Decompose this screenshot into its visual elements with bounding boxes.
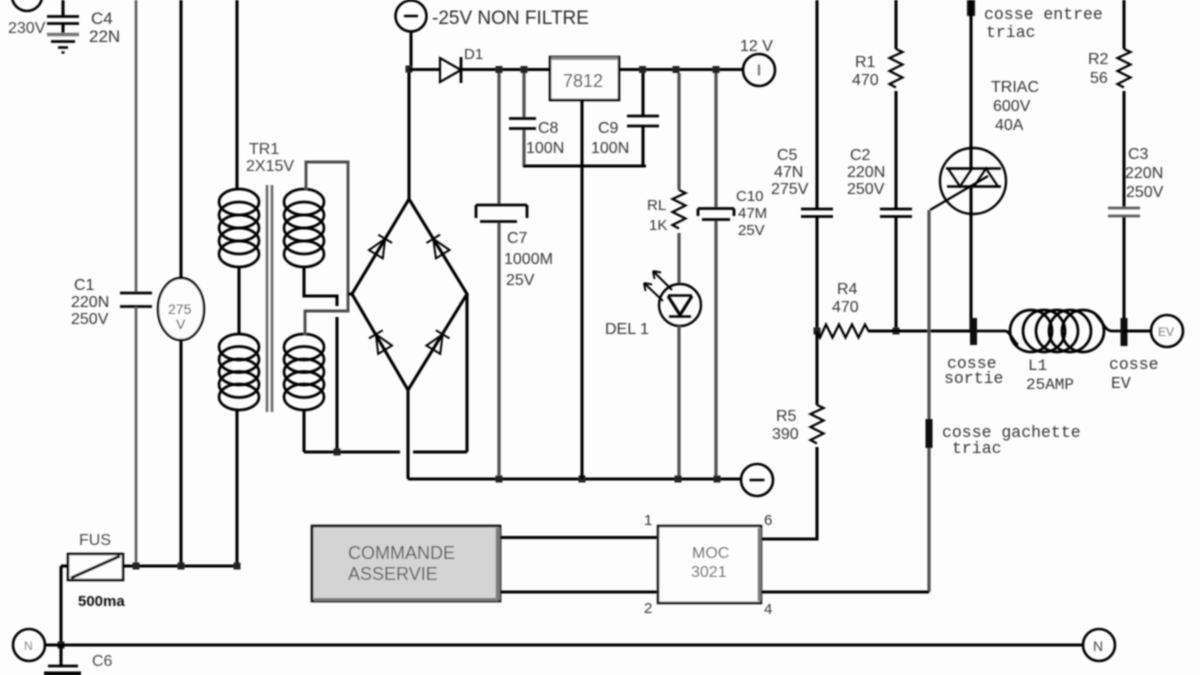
svg-text:220N: 220N: [71, 294, 109, 311]
svg-text:220N: 220N: [847, 164, 885, 181]
wire MOC pin 2 link: [500, 590, 658, 593]
svg-text:-25V NON FILTRE: -25V NON FILTRE: [432, 8, 589, 29]
svg-text:TR1: TR1: [249, 141, 279, 158]
capacitor C5 plates: [801, 209, 833, 217]
wire primary feed column: [235, 0, 238, 190]
svg-text:EV: EV: [1158, 325, 1174, 339]
terminal EV: [1151, 315, 1183, 347]
svg-text:D1: D1: [464, 46, 483, 63]
svg-text:230V: 230V: [8, 20, 46, 37]
wire ground rail: [408, 477, 741, 480]
terminal -25V NON FILTRE: [396, 1, 427, 32]
terminal N (bottom right): [1083, 629, 1115, 661]
node junction C10: [713, 66, 720, 73]
box COMMANDE ASSERVIE: [312, 526, 500, 601]
svg-text:470: 470: [832, 299, 859, 316]
svg-text:250V: 250V: [847, 181, 885, 198]
wire 12V output rail: [619, 68, 743, 71]
transformer core: [267, 185, 272, 412]
svg-text:220N: 220N: [1125, 165, 1163, 182]
resistor R1 470: [890, 49, 903, 88]
wire R4 to triac output node: [868, 329, 970, 332]
wire secondary top end wrap to bridge AC1: [305, 162, 348, 335]
resistor RL 1K: [673, 190, 686, 229]
svg-text:100N: 100N: [526, 140, 564, 157]
svg-text:2X15V: 2X15V: [246, 158, 294, 175]
resistor R4 470 (horizontal): [817, 325, 869, 338]
svg-text:sortie: sortie: [944, 369, 1003, 388]
node junction RL: [673, 66, 680, 73]
svg-text:triac: triac: [986, 23, 1036, 42]
wire bridge AC1 stub: [348, 292, 353, 295]
wire triac to output node: [969, 214, 972, 331]
svg-text:47N: 47N: [774, 164, 803, 181]
wire to D1: [409, 68, 440, 71]
wire mains column 1 (to C1 / fuse rail): [135, 0, 138, 293]
LED DEL1: [644, 271, 701, 326]
wire mains column 2 (varistor): [179, 0, 182, 279]
svg-text:47M: 47M: [738, 205, 767, 222]
capacitor C2 plates: [880, 209, 912, 217]
svg-text:470: 470: [852, 72, 879, 89]
svg-text:22N: 22N: [89, 27, 120, 46]
terminal 12V: [743, 54, 775, 86]
svg-text:4: 4: [764, 601, 772, 618]
wire LED to ground rail: [677, 326, 680, 476]
transformer TR1 primary winding (bottom): [219, 334, 259, 410]
inductor L1 25AMP: [977, 310, 1121, 352]
optocoupler MOC3021: [658, 526, 761, 603]
node junction at D1 anode: [406, 66, 413, 73]
svg-text:6: 6: [764, 512, 772, 529]
fuse FUS: [68, 554, 123, 580]
capacitor C3 plates: [1108, 208, 1140, 216]
svg-text:275V: 275V: [771, 181, 809, 198]
wire regulator ground pin: [580, 100, 583, 479]
capacitor C8 wires: [522, 73, 525, 118]
svg-text:100N: 100N: [591, 140, 629, 157]
svg-text:25AMP: 25AMP: [1026, 376, 1074, 394]
wire bridge AC2 drop: [465, 294, 468, 452]
capacitor C9 plates: [627, 116, 659, 126]
svg-text:DEL 1: DEL 1: [605, 321, 649, 338]
bridge diode lower-right: [426, 330, 449, 354]
svg-text:600V: 600V: [993, 98, 1031, 115]
wire secondary top coil bottom end (hops gray wire): [304, 267, 337, 306]
svg-text:R5: R5: [776, 408, 797, 425]
capacitor C10 wires: [714, 73, 717, 208]
node fuse rail junctions: [133, 563, 140, 570]
diode D1: [440, 57, 461, 83]
transformer TR1 secondary winding (top): [284, 189, 324, 267]
svg-text:56: 56: [1090, 70, 1108, 87]
svg-text:C2: C2: [850, 147, 871, 164]
svg-text:cosse: cosse: [1109, 355, 1159, 374]
svg-text:N: N: [24, 639, 33, 653]
capacitor C8 plates: [509, 119, 536, 129]
svg-text:25V: 25V: [738, 222, 765, 239]
node ground rail junctions: [496, 476, 503, 483]
svg-text:275: 275: [168, 301, 192, 317]
svg-text:C4: C4: [91, 9, 113, 28]
bridge diode lower-left: [369, 330, 392, 354]
wire R2 to C3: [1122, 91, 1125, 208]
wire R5 column: [815, 331, 818, 405]
svg-text:C6: C6: [92, 653, 113, 670]
varistor 275V: [158, 278, 204, 340]
svg-text:triac: triac: [952, 439, 1002, 458]
regulator U1 7812: [550, 57, 619, 100]
svg-text:500ma: 500ma: [78, 593, 125, 610]
wire C2 to output rail: [894, 217, 897, 331]
svg-text:R2: R2: [1088, 51, 1109, 68]
svg-text:COMMANDE: COMMANDE: [348, 543, 455, 563]
wire gachette (gate) column: [927, 210, 930, 592]
capacitor C9 wires: [641, 73, 644, 116]
svg-text:R4: R4: [837, 281, 858, 298]
transformer TR1 primary winding (top): [219, 189, 259, 267]
wire D1 to regulator: [461, 68, 550, 71]
cosse sortie (terminal lug): [970, 318, 977, 345]
wire: [135, 307, 138, 566]
svg-text:FUS: FUS: [79, 532, 111, 549]
cosse gachette triac (terminal lug): [926, 419, 933, 448]
wire R5 to MOC pin 6: [761, 447, 817, 539]
transformer TR1 secondary winding (bottom): [284, 334, 324, 410]
wire MOC pin 4 to gachette: [761, 590, 929, 593]
svg-text:C3: C3: [1128, 146, 1149, 163]
svg-text:cosse entree: cosse entree: [984, 5, 1103, 24]
svg-text:3021: 3021: [691, 564, 727, 581]
wire bridge minus (bottom vertex down): [406, 390, 409, 479]
wire MOC pin 1 link: [500, 536, 658, 539]
bridge diode upper-right: [427, 235, 450, 259]
node junction C8: [521, 66, 528, 73]
wire neutral rail: [45, 643, 1083, 646]
svg-text:RL: RL: [647, 197, 666, 214]
svg-text:12 V: 12 V: [740, 38, 773, 55]
node junction C7: [496, 66, 503, 73]
node R4 right junction (C2): [893, 328, 900, 335]
resistor RL wires: [677, 73, 680, 190]
svg-text:C8: C8: [538, 120, 559, 137]
capacitor C1: [120, 293, 152, 307]
fuse rail wire: [61, 564, 68, 567]
svg-text:V: V: [176, 316, 186, 332]
svg-text:390: 390: [772, 426, 799, 443]
svg-text:C9: C9: [598, 120, 619, 137]
svg-text:C5: C5: [777, 147, 798, 164]
capacitor C7 plates: [476, 205, 527, 222]
svg-text:L1: L1: [1028, 357, 1047, 375]
node AC2 junction: [334, 449, 341, 456]
ground (earth) under C4: [47, 35, 79, 53]
resistor R2 56: [1118, 49, 1131, 88]
wire C3 to cosse EV: [1122, 217, 1125, 331]
capacitor C6: [44, 645, 81, 674]
terminal N (bottom left): [13, 629, 45, 661]
wire R1 to C2: [894, 91, 897, 209]
svg-text:ASSERVIE: ASSERVIE: [348, 564, 438, 584]
resistor R5 390: [811, 405, 824, 444]
svg-text:MOC: MOC: [692, 545, 729, 562]
wire secondary bottom coil bottom end: [302, 409, 305, 452]
svg-text:C10: C10: [736, 188, 764, 205]
svg-text:TRIAC: TRIAC: [991, 79, 1039, 96]
node neutral junction: [58, 642, 65, 649]
svg-text:N: N: [1093, 638, 1103, 654]
cosse entree triac (terminal lug top): [967, 0, 975, 16]
svg-text:250V: 250V: [71, 311, 109, 328]
triac gate lead: [930, 176, 988, 210]
triac: [930, 148, 1006, 214]
capacitor C10 plates (electrolytic): [698, 209, 734, 220]
svg-text:1: 1: [644, 512, 652, 529]
svg-text:7812: 7812: [563, 71, 603, 91]
capacitor C7 (electrolytic) wires: [497, 73, 500, 205]
terminal top-left (cut off): [12, 0, 42, 11]
capacitor C4: [47, 0, 79, 33]
svg-text:250V: 250V: [1126, 184, 1164, 201]
wire triac anode column: [969, 0, 972, 148]
terminal minus (ground rail end): [741, 464, 773, 496]
wire R2 column top: [1122, 0, 1125, 49]
wire C5 to R4 node: [815, 217, 818, 331]
svg-text:C1: C1: [74, 277, 95, 294]
svg-text:R1: R1: [855, 54, 876, 71]
bridge diode upper-left: [369, 235, 392, 259]
wire fuse to neutral node: [59, 566, 62, 644]
svg-text:EV: EV: [1111, 374, 1131, 393]
svg-text:C7: C7: [507, 230, 528, 247]
wire regulator ground link: [523, 164, 646, 167]
svg-text:1000M: 1000M: [504, 251, 553, 268]
cosse EV (terminal lug): [1121, 318, 1128, 346]
svg-text:1K: 1K: [649, 217, 667, 234]
node junction C9: [639, 66, 646, 73]
wire cosse EV to terminal EV: [1124, 329, 1151, 332]
bridge rectifier diamond: [352, 199, 467, 390]
wire bridge plus (top vertex up): [407, 69, 410, 199]
wire R1 column top: [894, 0, 897, 49]
svg-text:25V: 25V: [506, 272, 535, 289]
wire primary series link: [237, 267, 240, 334]
wire C5 column top: [815, 0, 818, 209]
svg-text:2: 2: [644, 600, 652, 617]
svg-text:40A: 40A: [995, 117, 1024, 134]
wire AC2 bus (hops bridge minus wire): [304, 450, 400, 453]
node R4 left junction: [814, 328, 821, 335]
